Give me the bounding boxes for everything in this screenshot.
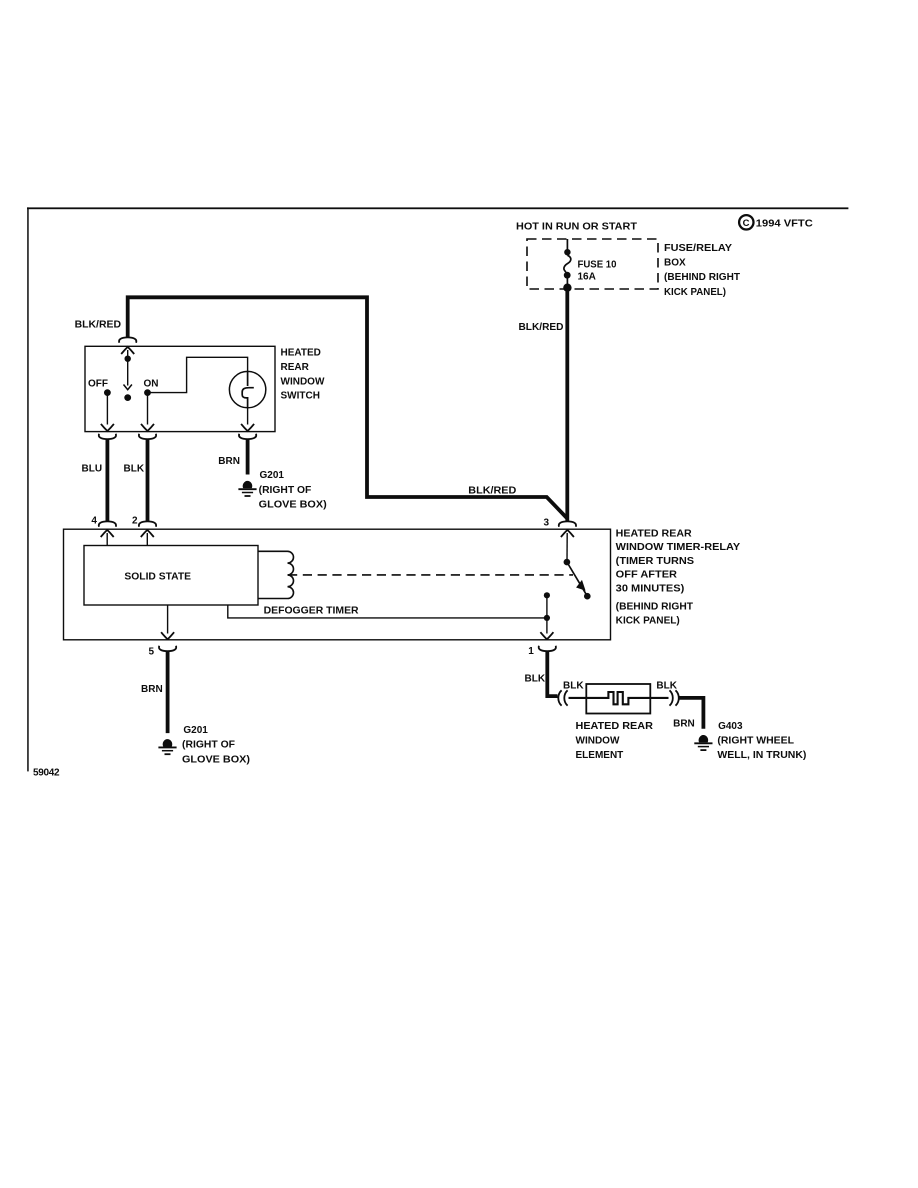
arrow OFF to pin 4 bbox=[101, 424, 114, 431]
svg-text:HEATED REAR: HEATED REAR bbox=[576, 721, 654, 732]
svg-text:GLOVE BOX): GLOVE BOX) bbox=[182, 754, 250, 765]
svg-text:FUSE/RELAY: FUSE/RELAY bbox=[664, 243, 732, 254]
relay switch contact from pin 3 bbox=[561, 530, 574, 566]
ground G201 (switch) bbox=[238, 481, 256, 496]
svg-text:(RIGHT WHEEL: (RIGHT WHEEL bbox=[717, 736, 794, 747]
label HEATED REAR WINDOW TIMER-RELAY ... bbox=[616, 528, 741, 626]
pin 1 arrow to relay edge bbox=[540, 632, 553, 639]
relay coil bbox=[258, 551, 294, 598]
svg-text:OFF: OFF bbox=[88, 378, 108, 389]
svg-text:KICK PANEL): KICK PANEL) bbox=[616, 615, 680, 626]
svg-text:3: 3 bbox=[544, 517, 550, 528]
heated rear window switch box bbox=[85, 346, 275, 431]
arrow lamp to BRN pin bbox=[241, 424, 254, 431]
svg-text:BLK: BLK bbox=[124, 464, 145, 475]
svg-text:KICK PANEL): KICK PANEL) bbox=[664, 287, 726, 298]
wire BLK bbox=[146, 439, 150, 521]
fuse/relay box (dashed) bbox=[527, 239, 658, 289]
svg-text:BRN: BRN bbox=[218, 456, 240, 467]
connector pin 1 bbox=[539, 646, 556, 651]
svg-text:(RIGHT OF: (RIGHT OF bbox=[182, 740, 235, 751]
svg-text:FUSE 10: FUSE 10 bbox=[578, 260, 617, 271]
indicator lamp in switch bbox=[229, 371, 265, 424]
label HEATED REAR WINDOW SWITCH bbox=[281, 348, 325, 402]
wire BLK/RED switch feed bbox=[128, 297, 568, 518]
wire BLK pin 1 bbox=[547, 651, 557, 696]
page frame top border bbox=[27, 207, 848, 209]
svg-text:HEATED REAR: HEATED REAR bbox=[616, 528, 693, 539]
node junction dots on pin1 branch bbox=[544, 592, 550, 633]
pin 2 arrow into relay bbox=[141, 530, 154, 546]
connector pin 4 bbox=[99, 521, 116, 526]
svg-text:G201: G201 bbox=[183, 725, 208, 736]
heated rear window element box bbox=[586, 684, 650, 714]
svg-text:HOT IN RUN OR START: HOT IN RUN OR START bbox=[516, 221, 637, 232]
switch common contact bbox=[124, 350, 132, 401]
connector element left bbox=[558, 690, 567, 705]
svg-text:(TIMER TURNS: (TIMER TURNS bbox=[616, 556, 695, 567]
svg-text:REAR: REAR bbox=[281, 362, 310, 373]
svg-text:BLK/RED: BLK/RED bbox=[519, 322, 564, 333]
svg-text:WINDOW TIMER-RELAY: WINDOW TIMER-RELAY bbox=[616, 542, 741, 553]
dashed actuation line bbox=[288, 574, 573, 576]
svg-text:(RIGHT OF: (RIGHT OF bbox=[259, 485, 312, 496]
wire BRN bbox=[246, 439, 250, 474]
heater element bbox=[569, 692, 669, 704]
wire BLK/RED fuse to pin 3 bbox=[565, 289, 569, 521]
connector at switch feed pin bbox=[119, 337, 136, 342]
defogger timer feedback wire bbox=[228, 605, 547, 618]
svg-text:C: C bbox=[743, 218, 750, 229]
svg-text:5: 5 bbox=[149, 646, 155, 657]
svg-text:WELL, IN TRUNK): WELL, IN TRUNK) bbox=[717, 750, 806, 761]
svg-text:(BEHIND RIGHT: (BEHIND RIGHT bbox=[616, 602, 693, 613]
svg-text:OFF AFTER: OFF AFTER bbox=[616, 570, 678, 581]
label G201 (RIGHT OF GLOVE BOX) bbox=[259, 470, 327, 510]
connector pin 5 bbox=[159, 646, 176, 651]
svg-text:SOLID STATE: SOLID STATE bbox=[124, 571, 191, 582]
label FUSE/RELAY BOX (BEHIND RIGHT KICK PANEL) bbox=[664, 243, 740, 298]
svg-text:30 MINUTES): 30 MINUTES) bbox=[616, 584, 685, 595]
ground G201 (timer) bbox=[158, 739, 176, 754]
svg-text:1994 VFTC: 1994 VFTC bbox=[756, 219, 813, 230]
heated rear window timer-relay box bbox=[64, 529, 611, 640]
copyright symbol 1994 VFTC bbox=[739, 215, 813, 230]
svg-text:4: 4 bbox=[91, 515, 97, 526]
svg-text:SWITCH: SWITCH bbox=[281, 391, 320, 402]
svg-text:BLK/RED: BLK/RED bbox=[75, 320, 121, 331]
solid state module box bbox=[84, 546, 258, 606]
svg-text:BLK: BLK bbox=[656, 680, 677, 691]
wire BRN pin 5 bbox=[166, 651, 170, 733]
arrow ON to pin 2 bbox=[141, 424, 154, 431]
svg-text:GLOVE BOX): GLOVE BOX) bbox=[259, 500, 327, 511]
svg-text:BLU: BLU bbox=[82, 464, 103, 475]
svg-text:BLK/RED: BLK/RED bbox=[468, 485, 516, 496]
pin 5 wire and arrow bbox=[161, 605, 174, 639]
page frame left border bbox=[27, 207, 29, 771]
svg-text:WINDOW: WINDOW bbox=[576, 736, 620, 747]
svg-text:DEFOGGER TIMER: DEFOGGER TIMER bbox=[264, 606, 360, 617]
svg-text:2: 2 bbox=[132, 515, 138, 526]
pin 4 arrow into relay bbox=[101, 530, 114, 546]
svg-text:BLK: BLK bbox=[563, 680, 584, 691]
svg-text:1: 1 bbox=[528, 646, 534, 657]
switch OFF contact bbox=[104, 389, 111, 424]
fuse F10 16A bbox=[563, 239, 571, 292]
svg-text:ELEMENT: ELEMENT bbox=[576, 750, 624, 761]
switch ON contact bbox=[144, 357, 248, 424]
svg-text:16A: 16A bbox=[578, 272, 596, 283]
svg-text:ON: ON bbox=[144, 378, 159, 389]
label G403 (RIGHT WHEEL WELL, IN TRUNK) bbox=[717, 721, 806, 761]
svg-text:WINDOW: WINDOW bbox=[281, 376, 325, 387]
svg-text:BRN: BRN bbox=[141, 684, 163, 695]
ground G403 bbox=[694, 735, 712, 750]
svg-text:BOX: BOX bbox=[664, 258, 686, 269]
label HEATED REAR WINDOW ELEMENT bbox=[576, 721, 654, 761]
svg-text:59042: 59042 bbox=[33, 768, 60, 779]
svg-text:G201: G201 bbox=[260, 470, 285, 481]
svg-text:HEATED: HEATED bbox=[281, 348, 321, 359]
switch feed pin arrow bbox=[121, 347, 134, 354]
svg-text:BRN: BRN bbox=[673, 719, 695, 730]
connector pin 3 bbox=[559, 521, 576, 526]
wire BRN to G403 bbox=[679, 698, 704, 729]
label G201 (RIGHT OF GLOVE BOX) second bbox=[182, 725, 250, 765]
svg-text:G403: G403 bbox=[718, 721, 743, 732]
connector pin 4 top bbox=[99, 434, 116, 439]
wire BLU bbox=[106, 439, 110, 521]
connector element right bbox=[670, 690, 679, 705]
svg-text:BLK: BLK bbox=[525, 673, 546, 684]
connector pin 2 bbox=[139, 521, 156, 526]
connector BRN top bbox=[239, 434, 256, 439]
relay switch blade bbox=[567, 562, 591, 600]
svg-text:(BEHIND RIGHT: (BEHIND RIGHT bbox=[664, 272, 740, 283]
connector pin 2 top bbox=[139, 434, 156, 439]
